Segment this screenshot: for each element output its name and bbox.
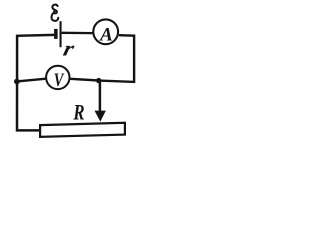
wire: battery to ammeter	[62, 32, 93, 35]
battery G (EMF source): positive plate (long thin bar)	[60, 21, 62, 47]
wire: top-left + left side + bottom to rheostat	[17, 35, 54, 130]
label r (internal resistance)	[61, 37, 78, 61]
rheostat R: slider arrowhead	[95, 111, 106, 122]
svg-text:A: A	[99, 25, 113, 46]
svg-text:R: R	[73, 99, 85, 124]
junction: slider tap node	[96, 78, 101, 83]
wire: ammeter to top-right corner, right side, down to slider node	[99, 35, 134, 82]
wire: left junction to voltmeter	[17, 79, 46, 82]
ammeter A: meter circle	[93, 19, 118, 44]
wire: voltmeter to slider junction	[70, 79, 99, 81]
voltmeter V: meter circle	[46, 66, 69, 89]
junction: left wire / voltmeter branch	[14, 79, 20, 85]
rheostat R: slider arrow shaft	[99, 81, 102, 112]
svg-text:V: V	[54, 70, 65, 91]
rheostat R: resistor body	[40, 123, 125, 137]
svg-text:r: r	[61, 37, 78, 61]
label EMF script-E	[52, 5, 60, 21]
battery G (EMF source): negative plate (short thick bar)	[54, 29, 58, 39]
